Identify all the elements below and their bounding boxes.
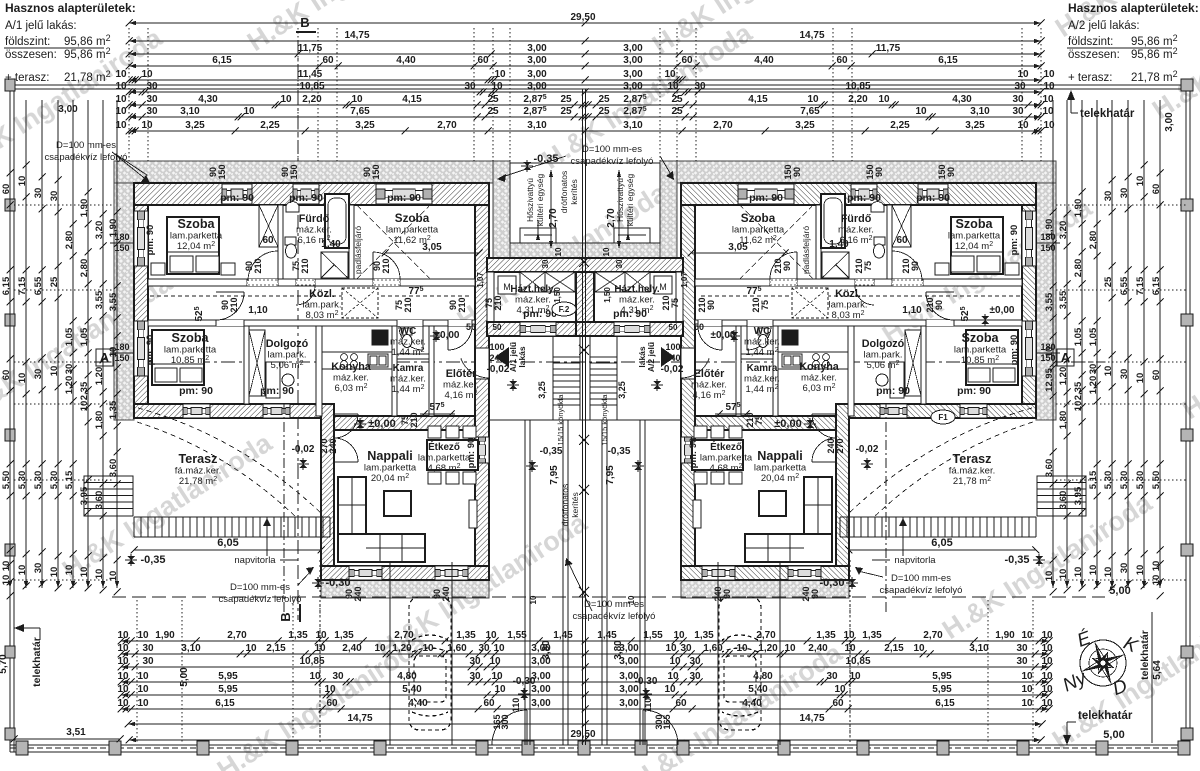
svg-text:pm: 90: pm: 90 xyxy=(220,192,254,204)
svg-text:210: 210 xyxy=(253,258,263,273)
svg-text:10: 10 xyxy=(485,630,497,641)
svg-text:A/2 jelű lakás:: A/2 jelű lakás: xyxy=(1068,20,1140,32)
svg-text:Teraszfá.máz.ker.21,78 m2: Teraszfá.máz.ker.21,78 m2 xyxy=(175,452,221,487)
svg-text:10: 10 xyxy=(915,106,927,117)
svg-text:210: 210 xyxy=(229,297,239,312)
svg-text:240: 240 xyxy=(441,586,451,601)
svg-text:10: 10 xyxy=(1044,571,1055,582)
svg-text:1,50: 1,50 xyxy=(553,287,562,303)
svg-text:210: 210 xyxy=(697,297,707,312)
svg-text:30: 30 xyxy=(478,643,490,654)
bottom row 29,50 xyxy=(126,729,1045,744)
svg-text:3,00: 3,00 xyxy=(531,698,551,709)
svg-text:11,75: 11,75 xyxy=(298,43,323,54)
partition bath/bedroom2 xyxy=(816,205,821,279)
svg-text:pm: 90: pm: 90 xyxy=(613,308,647,320)
dining table xyxy=(692,440,743,470)
svg-text:10: 10 xyxy=(137,630,149,641)
svg-text:10: 10 xyxy=(1021,698,1033,709)
svg-text:7,15: 7,15 xyxy=(17,276,28,295)
svg-text:95,86 m2: 95,86 m2 xyxy=(1131,46,1178,61)
svg-text:6,05: 6,05 xyxy=(931,537,952,549)
living room south wall (A/1) xyxy=(321,566,489,580)
svg-text:3,00: 3,00 xyxy=(58,104,78,115)
svg-text:drótfonatos: drótfonatos xyxy=(559,171,569,214)
svg-text:csapadékvíz lefolyó: csapadékvíz lefolyó xyxy=(219,594,302,605)
washbasin xyxy=(871,202,884,212)
svg-text:10: 10 xyxy=(673,630,685,641)
svg-text:3,25: 3,25 xyxy=(355,120,375,131)
partition study/kitchen xyxy=(316,326,322,416)
svg-text:10: 10 xyxy=(117,643,129,654)
svg-text:10: 10 xyxy=(309,671,321,682)
svg-text:3,10: 3,10 xyxy=(181,643,201,654)
svg-text:10: 10 xyxy=(669,656,681,667)
svg-text:1,45: 1,45 xyxy=(553,630,573,641)
washing machine M right xyxy=(654,276,672,294)
window bedroom1 top wall xyxy=(918,184,948,204)
svg-text:10: 10 xyxy=(422,643,434,654)
right column x=1067 xyxy=(1058,100,1071,594)
left column x=42 xyxy=(33,100,46,588)
svg-text:10: 10 xyxy=(491,671,503,682)
svg-text:10: 10 xyxy=(849,671,861,682)
partition kitchen/wc-pantry xyxy=(773,326,778,416)
svg-text:2,70: 2,70 xyxy=(227,630,247,641)
svg-text:14,75: 14,75 xyxy=(347,713,372,724)
svg-text:Előtérmáz.ker.4,16 m2: Előtérmáz.ker.4,16 m2 xyxy=(443,368,479,401)
svg-text:30: 30 xyxy=(49,191,60,202)
setback dashed line 5,00 xyxy=(112,596,1105,598)
svg-text:90: 90 xyxy=(782,261,792,271)
outer wall left (A/1) xyxy=(134,205,148,404)
unit A/2 shell and interior (right, mirrored) xyxy=(677,161,1086,745)
svg-text:10: 10 xyxy=(1041,643,1053,654)
svg-text:4,30: 4,30 xyxy=(952,94,972,105)
svg-text:±0,00: ±0,00 xyxy=(368,418,395,430)
svg-text:kültéri egység: kültéri egység xyxy=(535,174,545,227)
gravel strip left (A/1) xyxy=(114,183,134,420)
corridor south wall xyxy=(148,320,475,326)
svg-text:1,90: 1,90 xyxy=(79,199,90,218)
bottom row 14,75 xyxy=(125,713,1046,728)
svg-text:10: 10 xyxy=(1103,366,1114,377)
partition bedroom3/study xyxy=(921,326,926,404)
svg-text:3,55: 3,55 xyxy=(108,292,119,311)
window bathroom top wall xyxy=(293,184,319,204)
svg-text:10: 10 xyxy=(137,698,149,709)
dimension row 10,85 xyxy=(115,81,1055,96)
svg-text:Előtérmáz.ker.4,16 m2: Előtérmáz.ker.4,16 m2 xyxy=(691,368,727,401)
svg-text:Hasznos alapterületek:: Hasznos alapterületek: xyxy=(5,1,136,15)
svg-text:lakás: lakás xyxy=(517,346,527,368)
svg-text:10: 10 xyxy=(1017,120,1029,131)
svg-text:30: 30 xyxy=(689,671,701,682)
svg-text:30: 30 xyxy=(1119,188,1130,199)
svg-text:2,40: 2,40 xyxy=(808,643,828,654)
svg-text:150: 150 xyxy=(937,164,947,179)
svg-text:D=100 mm-es: D=100 mm-es xyxy=(891,573,951,584)
F.1 mark right unit xyxy=(931,410,955,424)
svg-text:3,00: 3,00 xyxy=(527,55,547,66)
corridor north wall xyxy=(148,279,475,286)
svg-text:10: 10 xyxy=(1041,656,1053,667)
terrace sun-sail dashed curves xyxy=(138,408,322,514)
svg-text:25: 25 xyxy=(598,94,610,105)
terrace edge band with comb ticks xyxy=(134,516,330,518)
svg-text:3,10: 3,10 xyxy=(180,106,200,117)
svg-text:M: M xyxy=(503,282,511,292)
svg-text:10: 10 xyxy=(1043,81,1055,92)
D=100 rainwater notes xyxy=(45,140,128,163)
svg-text:1,90: 1,90 xyxy=(1044,219,1055,238)
F.2 mark left xyxy=(552,302,576,316)
gate arc left xyxy=(492,710,527,745)
title block A/1 top left xyxy=(4,1,136,84)
svg-text:10: 10 xyxy=(17,373,28,384)
svg-text:30: 30 xyxy=(142,656,154,667)
svg-text:2,70: 2,70 xyxy=(713,120,733,131)
dimension row 14,75 top xyxy=(126,30,1045,45)
svg-text:5,64: 5,64 xyxy=(1152,660,1163,680)
svg-text:25: 25 xyxy=(671,106,683,117)
svg-text:50: 50 xyxy=(694,322,704,332)
svg-text:3,00: 3,00 xyxy=(531,643,551,654)
partition bedroom3/study xyxy=(244,326,249,404)
door arc terrace (double) xyxy=(334,414,358,438)
svg-text:30: 30 xyxy=(33,188,44,199)
vertical helper dotted lines bottom xyxy=(136,600,138,744)
wardrobe bedroom1 xyxy=(259,205,278,247)
bottom dimension row y=654 xyxy=(117,643,1053,658)
svg-text:30: 30 xyxy=(1016,656,1028,667)
left column x=58 xyxy=(49,100,62,592)
door arc hall-corridor xyxy=(448,326,472,350)
outer wall east to central court (A/1) xyxy=(681,205,695,580)
svg-text:Nappalilam.parketta20,04 m2: Nappalilam.parketta20,04 m2 xyxy=(364,449,417,484)
door arc bathroom xyxy=(855,286,874,305)
driveway dotted line xyxy=(319,560,321,745)
svg-text:10: 10 xyxy=(79,567,90,578)
svg-text:10: 10 xyxy=(736,643,748,654)
entry stairs right xyxy=(590,357,617,405)
svg-text:240: 240 xyxy=(801,586,811,601)
section line A-A xyxy=(96,361,1104,363)
svg-text:D=100 mm-es: D=100 mm-es xyxy=(230,582,290,593)
car parking space (A/1) xyxy=(409,597,451,730)
door arc wc xyxy=(399,326,423,350)
svg-text:telekhatár: telekhatár xyxy=(1078,710,1133,722)
tv board xyxy=(469,500,477,528)
living room west wall (A/1) xyxy=(321,404,334,580)
svg-text:10: 10 xyxy=(117,671,129,682)
svg-text:3,00: 3,00 xyxy=(531,671,551,682)
outer wall left (A/1) xyxy=(1022,205,1036,404)
svg-text:1,80: 1,80 xyxy=(1058,411,1069,430)
svg-text:10: 10 xyxy=(115,81,127,92)
svg-text:10: 10 xyxy=(494,684,506,695)
window living room south 2 xyxy=(702,566,735,580)
dimension row 11,75 / 3,00 xyxy=(126,43,1045,58)
svg-text:2,15: 2,15 xyxy=(266,643,286,654)
svg-text:10: 10 xyxy=(117,684,129,695)
svg-text:1,10: 1,10 xyxy=(902,305,922,316)
svg-text:3,20: 3,20 xyxy=(1058,221,1069,240)
svg-text:21,78 m2: 21,78 m2 xyxy=(64,69,111,84)
svg-text:240: 240 xyxy=(353,586,363,601)
svg-text:telekhatár: telekhatár xyxy=(1080,108,1135,120)
svg-text:10: 10 xyxy=(1042,94,1054,105)
svg-text:pm: 90: pm: 90 xyxy=(145,335,156,366)
svg-text:10: 10 xyxy=(784,643,796,654)
walkway lines to street xyxy=(524,420,526,745)
svg-text:B: B xyxy=(278,612,293,621)
terrace side steps xyxy=(1037,476,1086,516)
desk study xyxy=(266,362,280,398)
entrance arrow A/2 xyxy=(661,347,675,367)
svg-text:25: 25 xyxy=(487,94,499,105)
svg-text:1,55: 1,55 xyxy=(507,630,527,641)
svg-text:25: 25 xyxy=(598,106,610,117)
central court inner outline xyxy=(510,163,660,243)
svg-text:1,40: 1,40 xyxy=(829,239,849,250)
partition wc/pantry xyxy=(739,354,773,359)
svg-text:110: 110 xyxy=(511,698,521,713)
svg-text:10: 10 xyxy=(141,120,153,131)
svg-text:telekhatár: telekhatár xyxy=(31,637,43,687)
gravel strip bottom under living room (A/1) xyxy=(681,580,849,598)
coffee table xyxy=(384,491,411,516)
svg-text:pm: 90: pm: 90 xyxy=(847,192,881,204)
svg-text:2,70: 2,70 xyxy=(437,120,457,131)
svg-text:3,05: 3,05 xyxy=(728,242,748,253)
svg-text:3,95: 3,95 xyxy=(1073,486,1084,505)
svg-text:10: 10 xyxy=(1058,569,1069,580)
window bedroom2 top wall xyxy=(376,184,432,204)
svg-text:10: 10 xyxy=(115,69,127,80)
svg-text:3,00: 3,00 xyxy=(623,81,643,92)
svg-text:2,80: 2,80 xyxy=(1073,259,1084,278)
svg-text:pm: 90: pm: 90 xyxy=(145,225,156,256)
svg-text:7,65: 7,65 xyxy=(800,106,820,117)
partition bath/bedroom2 xyxy=(349,205,354,279)
svg-text:30: 30 xyxy=(615,259,624,268)
washbasin xyxy=(286,202,299,212)
svg-text:3,51: 3,51 xyxy=(66,727,86,738)
svg-text:-0,02: -0,02 xyxy=(856,444,879,455)
partition pantry/hall xyxy=(736,326,741,416)
left column x=103 xyxy=(94,100,107,594)
svg-text:210: 210 xyxy=(773,258,783,273)
svg-text:Hasznos alapterületek:: Hasznos alapterületek: xyxy=(1068,1,1199,15)
svg-text:-0,30: -0,30 xyxy=(325,577,350,589)
svg-text:10: 10 xyxy=(351,94,363,105)
partition kitchen/wc-pantry xyxy=(392,326,397,416)
svg-text:210: 210 xyxy=(381,258,391,273)
bathtub xyxy=(821,194,845,248)
svg-text:60: 60 xyxy=(675,698,687,709)
svg-text:1,35: 1,35 xyxy=(334,630,354,641)
svg-text:3,10: 3,10 xyxy=(970,106,990,117)
svg-text:10: 10 xyxy=(117,698,129,709)
svg-text:210: 210 xyxy=(745,412,755,427)
property fence left xyxy=(9,85,11,752)
right column x=1053 xyxy=(1044,100,1057,596)
svg-text:10,85: 10,85 xyxy=(299,81,324,92)
driveway dotted line xyxy=(849,560,851,745)
svg-text:6,15: 6,15 xyxy=(215,698,235,709)
svg-text:10: 10 xyxy=(245,643,257,654)
svg-text:3,10: 3,10 xyxy=(969,643,989,654)
svg-text:210: 210 xyxy=(661,295,671,310)
door arc wc xyxy=(747,326,771,350)
svg-text:Konyhamáz.ker.6,03 m2: Konyhamáz.ker.6,03 m2 xyxy=(799,361,840,394)
dimension row 4,30 2,20 4,15 xyxy=(115,94,1054,109)
property fence bottom xyxy=(10,744,1190,746)
svg-text:300: 300 xyxy=(654,714,664,729)
door arc entry xyxy=(681,358,709,378)
svg-text:-0,30: -0,30 xyxy=(819,577,844,589)
svg-text:14,75: 14,75 xyxy=(799,30,824,41)
shower tray xyxy=(822,252,849,278)
svg-text:M: M xyxy=(659,282,667,292)
utility room window right xyxy=(614,322,650,336)
svg-text:90: 90 xyxy=(910,261,920,271)
svg-text:10: 10 xyxy=(602,247,611,256)
svg-text:összesen:: összesen: xyxy=(1068,49,1120,61)
door arc bedroom3 xyxy=(216,292,244,320)
left column x=73 xyxy=(64,100,77,590)
svg-text:10: 10 xyxy=(1135,565,1146,576)
svg-text:240: 240 xyxy=(713,586,723,601)
svg-text:+ terasz:: + terasz: xyxy=(1068,72,1112,84)
svg-text:60: 60 xyxy=(1,370,12,381)
svg-text:3,00: 3,00 xyxy=(527,81,547,92)
svg-text:10: 10 xyxy=(1021,630,1033,641)
door arc terrace (double) xyxy=(812,414,836,438)
svg-text:1,05: 1,05 xyxy=(1073,327,1084,346)
svg-text:4,40: 4,40 xyxy=(408,698,428,709)
door arc bedroom2 xyxy=(373,252,400,279)
left column x=88 xyxy=(79,100,92,592)
svg-text:3,95: 3,95 xyxy=(79,486,90,505)
svg-text:2,40: 2,40 xyxy=(342,643,362,654)
outer wall east to central court (A/1) xyxy=(475,205,489,580)
svg-text:60: 60 xyxy=(832,698,844,709)
svg-text:30: 30 xyxy=(469,671,481,682)
svg-text:10: 10 xyxy=(807,94,819,105)
terrace overhang dash-dot line xyxy=(283,404,285,612)
parking bay lines xyxy=(779,562,781,745)
svg-text:14,75: 14,75 xyxy=(799,713,824,724)
kitchen stove xyxy=(823,354,830,361)
svg-text:2,80: 2,80 xyxy=(1088,231,1099,250)
svg-text:25: 25 xyxy=(487,106,499,117)
wardrobe boxes utility right xyxy=(595,272,625,292)
arrows from heat pump labels xyxy=(536,232,540,240)
right column x=1112 xyxy=(1103,100,1116,592)
svg-text:6,55: 6,55 xyxy=(33,276,44,295)
svg-text:4,15: 4,15 xyxy=(748,94,768,105)
svg-text:10: 10 xyxy=(243,106,255,117)
window dining east wall xyxy=(681,437,695,463)
svg-text:240: 240 xyxy=(665,353,680,363)
svg-text:A/1 jelű lakás:: A/1 jelű lakás: xyxy=(5,20,77,32)
svg-text:15/15 könyökfa: 15/15 könyökfa xyxy=(556,394,565,446)
svg-text:29,50: 29,50 xyxy=(570,729,595,740)
svg-text:Dolgozólam.park.5,06 m2: Dolgozólam.park.5,06 m2 xyxy=(266,338,309,371)
180/150 window spec boxes left wall xyxy=(114,232,129,253)
svg-text:1,35: 1,35 xyxy=(816,630,836,641)
bottom dimension row y=695 xyxy=(117,684,1053,699)
svg-text:30: 30 xyxy=(33,369,44,380)
svg-text:60: 60 xyxy=(483,698,495,709)
svg-text:2,15: 2,15 xyxy=(884,643,904,654)
svg-text:pm: 90: pm: 90 xyxy=(957,385,991,397)
svg-text:10: 10 xyxy=(108,347,119,358)
window living room south 1 xyxy=(788,566,821,580)
bottom dimension row y=709 xyxy=(117,698,1053,713)
entry stairs left xyxy=(553,357,580,405)
svg-text:4,80: 4,80 xyxy=(753,671,773,682)
svg-text:25: 25 xyxy=(49,276,60,287)
svg-text:Dolgozólam.park.5,06 m2: Dolgozólam.park.5,06 m2 xyxy=(862,338,905,371)
svg-text:60: 60 xyxy=(322,55,334,66)
svg-text:10: 10 xyxy=(1103,567,1114,578)
svg-text:3,10: 3,10 xyxy=(527,120,547,131)
svg-text:2,20: 2,20 xyxy=(302,94,322,105)
svg-text:10: 10 xyxy=(843,630,855,641)
svg-text:240: 240 xyxy=(826,438,836,453)
svg-text:10: 10 xyxy=(1073,567,1084,578)
svg-text:1,20: 1,20 xyxy=(1058,367,1069,386)
svg-text:2,25: 2,25 xyxy=(890,120,910,131)
svg-text:3,25: 3,25 xyxy=(617,381,627,399)
svg-text:95,86 m2: 95,86 m2 xyxy=(64,46,111,61)
svg-text:10: 10 xyxy=(49,366,60,377)
dimension row 3,25 2,25 xyxy=(115,120,1055,135)
horizontal dotted lines to side columns xyxy=(14,204,114,206)
svg-text:30: 30 xyxy=(689,656,701,667)
entrance arrow A/1 xyxy=(495,347,509,367)
svg-text:2,25: 2,25 xyxy=(260,120,280,131)
svg-text:30: 30 xyxy=(1012,106,1024,117)
svg-text:5,00: 5,00 xyxy=(179,667,190,687)
svg-text:7,65: 7,65 xyxy=(350,106,370,117)
svg-text:1,20: 1,20 xyxy=(64,376,75,395)
svg-text:10: 10 xyxy=(64,565,75,576)
window bedroom3 left wall xyxy=(134,321,148,376)
threshold dashes at doors xyxy=(892,280,923,285)
right column x=1128 xyxy=(1119,100,1132,588)
svg-text:pm: 90: pm: 90 xyxy=(1009,225,1020,256)
door arc bedroom1 xyxy=(248,251,278,281)
svg-text:10: 10 xyxy=(1151,561,1162,572)
svg-text:95,86 m2: 95,86 m2 xyxy=(64,33,111,48)
dining table xyxy=(427,440,478,470)
central court gravel U band xyxy=(493,161,510,258)
svg-text:10: 10 xyxy=(1041,630,1053,641)
terrace dimension 6,05 line xyxy=(849,549,1036,551)
svg-text:3,20: 3,20 xyxy=(94,221,105,240)
corridor south wall xyxy=(695,320,1022,326)
left column x=117 xyxy=(108,100,121,596)
svg-text:10: 10 xyxy=(529,595,538,604)
svg-text:3,00: 3,00 xyxy=(531,684,551,695)
svg-text:5,00: 5,00 xyxy=(1103,729,1124,741)
svg-text:D=100 mm-es: D=100 mm-es xyxy=(584,599,644,610)
svg-text:-0,02: -0,02 xyxy=(661,364,684,375)
